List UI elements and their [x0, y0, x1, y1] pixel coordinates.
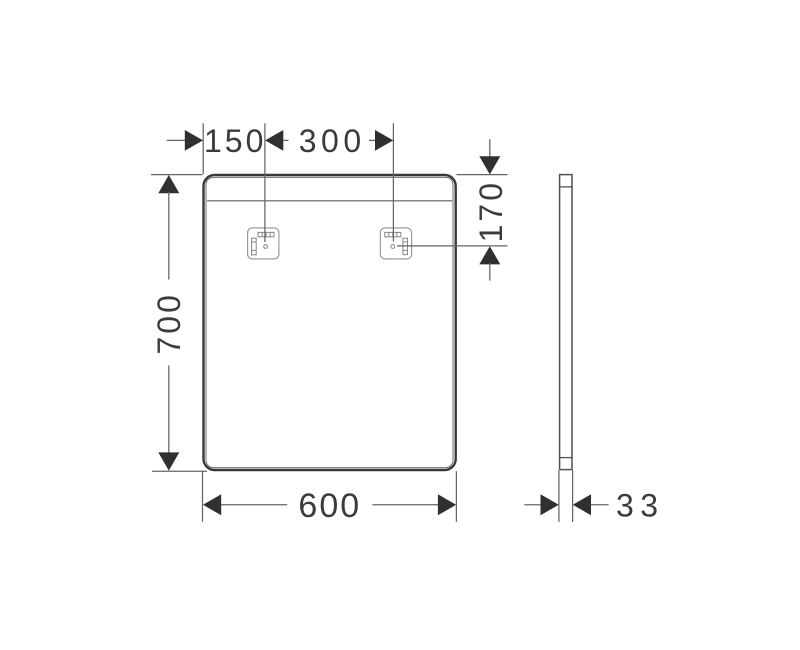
extension line mirror bottom-left corner (600 dim) [202, 471, 204, 522]
extension line right bracket centre [392, 123, 394, 241]
svg-text:170: 170 [473, 180, 509, 242]
dim 150 arrow right-pointing [185, 130, 203, 151]
extension line mirror top-left (700 dim) [151, 174, 203, 176]
right mounting bracket outline [380, 228, 411, 259]
dim 700 line upper segment [168, 192, 170, 280]
left mounting bracket outline [248, 228, 279, 259]
dim 33 arrow left-pointing [573, 494, 591, 515]
dim 600 line right segment [373, 504, 439, 506]
dim 33 arrow right-pointing [541, 494, 559, 515]
extension line mirror left edge (top dim) [202, 123, 204, 174]
side view bottom bracket line [559, 457, 573, 459]
svg-text:150: 150 [204, 123, 266, 159]
dim shared arrow tail [283, 139, 289, 141]
dim 600 line left segment [221, 504, 287, 506]
dim 170 lower leader line [489, 263, 491, 280]
dim 170 arrow up [479, 246, 500, 264]
left bracket top slot row [258, 232, 274, 236]
right bracket top slot row [385, 232, 401, 236]
svg-text:700: 700 [151, 292, 187, 354]
extension line mirror top-right (170 dim) [457, 174, 508, 176]
dim 600 arrow left-pointing [203, 494, 221, 515]
svg-text:33: 33 [616, 488, 665, 524]
mirror front view outer contour [204, 175, 456, 470]
left bracket side slot column [252, 238, 257, 255]
dim 700 arrow down [158, 452, 179, 470]
extension line left bracket centre [264, 123, 266, 242]
extension line side view right (33 dim) [572, 470, 574, 522]
extension line bracket hole level (170 dim) [397, 245, 507, 247]
svg-text:600: 600 [298, 487, 361, 525]
dim 170 upper leader line [489, 139, 491, 156]
dim shared arrow left-pointing at bracket line [265, 130, 283, 151]
dim 150 tail line left [167, 139, 185, 141]
extension line mirror bottom-right corner (600 dim) [455, 471, 457, 522]
right bracket side slot column [403, 238, 408, 254]
mirror front view inner contour [206, 177, 453, 467]
right bracket screw hole [391, 245, 395, 249]
dim 300 tail line right [369, 139, 376, 141]
mirror glass top edge line [207, 200, 452, 202]
dim 700 line lower segment [168, 366, 170, 454]
left bracket screw hole [264, 245, 268, 249]
dim 33 tail line left [524, 504, 541, 506]
dim 300 arrow right-pointing [375, 130, 393, 151]
dim 170 arrow down [479, 156, 500, 174]
svg-text:300: 300 [299, 123, 366, 159]
dim 700 arrow up [158, 175, 179, 193]
dim 600 arrow right-pointing [438, 494, 456, 515]
extension line side view left (33 dim) [558, 470, 560, 522]
extension line mirror bottom-left (700 dim) [152, 470, 207, 472]
dim 33 tail line right [591, 504, 609, 506]
side view top bracket line [559, 186, 573, 188]
side view outer profile [560, 175, 572, 470]
